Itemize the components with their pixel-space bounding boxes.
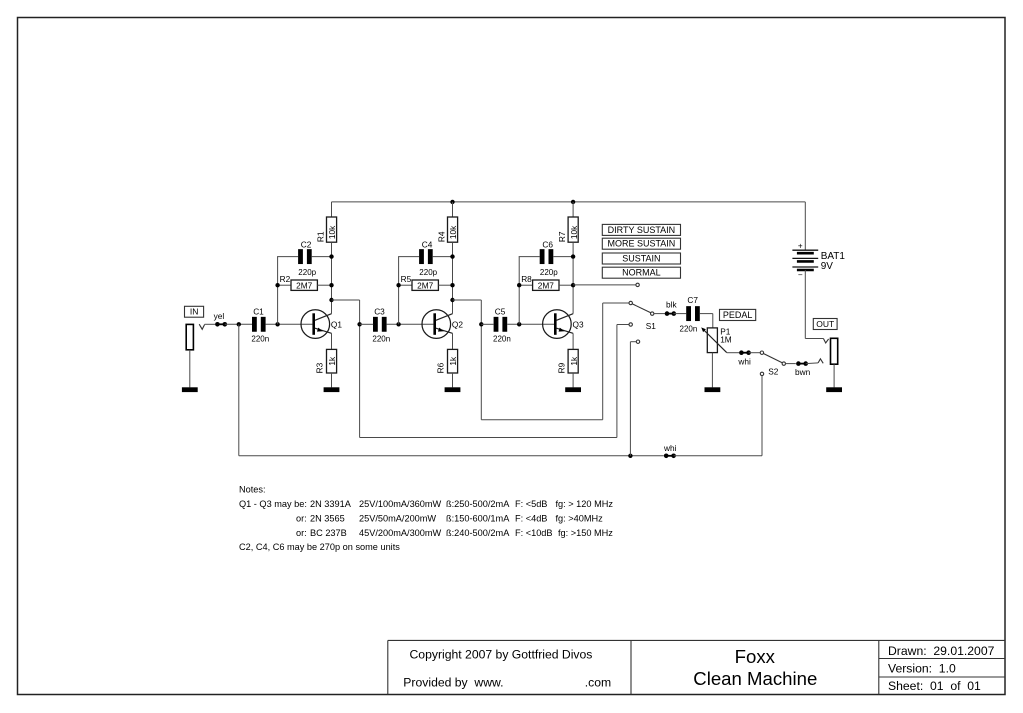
wire feedback vertical bbox=[398, 257, 400, 325]
ground emitter bbox=[324, 387, 340, 392]
potentiometer P1 1M bbox=[707, 328, 717, 353]
connector yel bbox=[215, 322, 220, 327]
P1 wiper arrow bbox=[703, 330, 726, 353]
node feedback-left bbox=[275, 283, 279, 287]
svg-text:C7: C7 bbox=[687, 295, 698, 305]
svg-text:Provided by www.: Provided by www. bbox=[403, 675, 503, 689]
svg-text:S2: S2 bbox=[768, 367, 779, 377]
svg-text:Clean Machine: Clean Machine bbox=[693, 668, 817, 689]
svg-text:Foxx: Foxx bbox=[735, 646, 776, 667]
svg-text:fg: >150 MHz: fg: >150 MHz bbox=[558, 528, 613, 538]
node 2M7-collector bbox=[571, 283, 575, 287]
svg-text:2M7: 2M7 bbox=[296, 280, 313, 290]
capacitor C3 220n bbox=[373, 317, 378, 332]
node base junction bbox=[517, 322, 521, 326]
svg-text:OUT: OUT bbox=[816, 319, 834, 329]
resistor R8 2M7 bbox=[519, 284, 532, 286]
node 220p-collector bbox=[329, 254, 333, 258]
connector blk bbox=[665, 311, 670, 316]
node Q1 collector takeoff bbox=[329, 298, 333, 302]
svg-text:yel: yel bbox=[214, 311, 225, 321]
wire S2 to out bbox=[785, 363, 795, 365]
svg-text:1M: 1M bbox=[720, 334, 732, 344]
wire Q3 output to S1 bbox=[573, 284, 636, 286]
svg-text:bwn: bwn bbox=[795, 367, 811, 377]
svg-text:1k: 1k bbox=[569, 356, 579, 366]
svg-text:DIRTY SUSTAIN: DIRTY SUSTAIN bbox=[608, 225, 676, 235]
svg-text:1k: 1k bbox=[327, 356, 337, 366]
svg-text:ß:150-600/1mA: ß:150-600/1mA bbox=[446, 513, 510, 523]
svg-text:or:: or: bbox=[296, 528, 307, 538]
jack J1 input bbox=[186, 324, 193, 349]
label OUT box bbox=[813, 319, 837, 330]
svg-text:45V/200mA/300mW: 45V/200mA/300mW bbox=[359, 528, 442, 538]
svg-text:220p: 220p bbox=[419, 268, 437, 277]
label PEDAL box bbox=[720, 309, 756, 320]
svg-text:9V: 9V bbox=[821, 261, 834, 272]
svg-text:whi: whi bbox=[737, 357, 751, 367]
svg-text:10k: 10k bbox=[448, 225, 458, 239]
label NORMAL bbox=[602, 267, 680, 278]
svg-text:R4: R4 bbox=[437, 231, 447, 242]
svg-text:10k: 10k bbox=[569, 225, 579, 239]
wire emitter bbox=[331, 333, 333, 349]
wire C5 feed bbox=[481, 323, 494, 325]
svg-text:BC 237B: BC 237B bbox=[310, 528, 347, 538]
svg-text:R3: R3 bbox=[315, 362, 325, 373]
ground emitter bbox=[565, 387, 581, 392]
svg-text:C5: C5 bbox=[495, 307, 506, 317]
svg-text:2M7: 2M7 bbox=[538, 280, 555, 290]
node 2M7-collector bbox=[329, 283, 333, 287]
switch S2 arm bbox=[763, 354, 782, 363]
svg-text:25V/100mA/360mW: 25V/100mA/360mW bbox=[359, 499, 442, 509]
resistor R7 10k bbox=[572, 202, 574, 217]
resistor R3 1k bbox=[327, 349, 337, 373]
svg-text:F: <5dB: F: <5dB bbox=[515, 499, 547, 509]
connector whi bottom bbox=[664, 454, 669, 459]
transistor Q1 bbox=[301, 310, 330, 339]
svg-text:Version: 1.0: Version: 1.0 bbox=[888, 661, 956, 675]
connector whi bbox=[739, 350, 744, 355]
svg-text:Sheet: 01 of 01: Sheet: 01 of 01 bbox=[888, 679, 981, 693]
wire collector vertical bbox=[452, 242, 454, 300]
capacitor C4 220p bbox=[419, 249, 424, 264]
resistor R6 1k bbox=[448, 349, 458, 373]
svg-text:C3: C3 bbox=[374, 307, 385, 317]
node C3 input bbox=[357, 322, 361, 326]
ground input jack bbox=[189, 350, 191, 388]
svg-text:220n: 220n bbox=[680, 325, 698, 334]
wire feedback vertical bbox=[277, 257, 279, 325]
wire normal tap up bbox=[629, 342, 631, 456]
node 220p-collector bbox=[571, 254, 575, 258]
battery BAT1 9V bbox=[804, 202, 806, 250]
resistor R1 10k bbox=[331, 202, 333, 217]
wire sustain run Q1 bbox=[360, 437, 617, 439]
node Q2 collector takeoff bbox=[450, 298, 454, 302]
svg-text:C1: C1 bbox=[253, 307, 264, 317]
wire P1 to ground bbox=[711, 353, 713, 388]
switch S2 throw2 bbox=[760, 372, 763, 375]
wire C7 to P1 bbox=[700, 313, 713, 315]
connector bwn bbox=[796, 361, 801, 366]
svg-text:R2: R2 bbox=[280, 274, 291, 284]
label SUSTAIN bbox=[602, 253, 680, 264]
svg-text:or:: or: bbox=[296, 513, 307, 523]
label DIRTY SUSTAIN bbox=[602, 224, 680, 235]
wire collector vertical bbox=[572, 242, 574, 300]
switch S1 throw1 bbox=[636, 283, 639, 286]
svg-text:whi: whi bbox=[663, 443, 677, 453]
resistor R5 2M7 bbox=[399, 284, 412, 286]
svg-text:2M7: 2M7 bbox=[417, 280, 434, 290]
wire battery negative bbox=[804, 270, 806, 339]
svg-text:S1: S1 bbox=[646, 321, 657, 331]
svg-text:R8: R8 bbox=[521, 274, 532, 284]
svg-text:2N 3565: 2N 3565 bbox=[310, 513, 345, 523]
jack tip contact V bbox=[199, 324, 204, 329]
capacitor C6 220p bbox=[540, 249, 545, 264]
svg-text:F: <10dB: F: <10dB bbox=[515, 528, 553, 538]
switch S1 throw4 bbox=[636, 340, 639, 343]
switch S2 throw1 bbox=[782, 362, 785, 365]
svg-text:R9: R9 bbox=[556, 362, 566, 373]
svg-text:MORE SUSTAIN: MORE SUSTAIN bbox=[607, 239, 675, 249]
svg-text:220p: 220p bbox=[540, 268, 558, 277]
resistor R2 2M7 bbox=[278, 284, 291, 286]
svg-text:−: − bbox=[798, 270, 803, 279]
wire cap to base bbox=[507, 323, 554, 325]
wire emitter bbox=[452, 333, 454, 349]
jack tip contact out bbox=[818, 359, 823, 364]
svg-text:220p: 220p bbox=[298, 268, 316, 277]
switch S1 arm bbox=[632, 304, 650, 313]
node 2M7-collector bbox=[450, 283, 454, 287]
svg-text:Drawn: 29.01.2007: Drawn: 29.01.2007 bbox=[888, 644, 995, 658]
svg-text:.com: .com bbox=[585, 675, 611, 689]
wire C3 feed bbox=[360, 323, 374, 325]
wire wiper to S2 bbox=[727, 352, 740, 354]
label MORE SUSTAIN bbox=[602, 238, 680, 249]
svg-text:NORMAL: NORMAL bbox=[622, 268, 661, 278]
svg-text:2N 3391A: 2N 3391A bbox=[310, 499, 352, 509]
wire 220p to collector bbox=[312, 256, 332, 258]
jack J2 output bbox=[831, 338, 838, 364]
svg-text:ß:250-500/2mA: ß:250-500/2mA bbox=[446, 499, 510, 509]
svg-text:PEDAL: PEDAL bbox=[723, 310, 753, 320]
wire feedback vertical bbox=[518, 257, 520, 325]
wire 220p to collector bbox=[553, 256, 573, 258]
svg-text:Q3: Q3 bbox=[573, 319, 584, 329]
svg-text:Q1 - Q3 may be:: Q1 - Q3 may be: bbox=[239, 499, 307, 509]
label IN box bbox=[185, 306, 204, 317]
svg-text:Q1: Q1 bbox=[331, 319, 342, 329]
capacitor C7 220n bbox=[686, 306, 691, 321]
wire sustain run Q2 bbox=[481, 419, 602, 421]
svg-text:blk: blk bbox=[666, 300, 677, 310]
svg-text:fg: > 120 MHz: fg: > 120 MHz bbox=[556, 499, 614, 509]
wire Q1 takeoff bbox=[332, 299, 360, 301]
wire cap to base bbox=[266, 323, 313, 325]
svg-text:SUSTAIN: SUSTAIN bbox=[622, 254, 660, 264]
transistor Q3 bbox=[543, 310, 572, 339]
svg-text:1k: 1k bbox=[448, 356, 458, 366]
wire emitter bbox=[572, 333, 574, 349]
capacitor C1 220n bbox=[252, 317, 257, 332]
wire +9V rail bbox=[332, 201, 806, 203]
wire out jack ground bbox=[833, 364, 835, 387]
svg-text:Copyright 2007 by Gottfried Di: Copyright 2007 by Gottfried Divos bbox=[410, 647, 593, 661]
wire 220p to collector bbox=[433, 256, 453, 258]
wire to C1 bbox=[225, 323, 252, 325]
svg-text:C2, C4, C6 may be 270p on some: C2, C4, C6 may be 270p on some units bbox=[239, 542, 400, 552]
node normal tap bbox=[628, 454, 632, 458]
switch S2 pole bbox=[760, 351, 763, 354]
wire input bbox=[205, 323, 216, 325]
node rail-R4 bbox=[450, 200, 454, 204]
resistor R4 10k bbox=[452, 202, 454, 217]
svg-text:R5: R5 bbox=[401, 274, 412, 284]
node input junction bbox=[237, 322, 241, 326]
svg-text:R6: R6 bbox=[436, 362, 446, 373]
svg-text:fg: >40MHz: fg: >40MHz bbox=[556, 513, 604, 523]
wire S2 throw2 down bbox=[761, 376, 763, 456]
wire whi bottom run bbox=[239, 455, 664, 457]
wire S1 to C7 bbox=[654, 313, 665, 315]
capacitor C2 220p bbox=[298, 249, 303, 264]
switch S1 pole bbox=[651, 312, 654, 315]
svg-text:C6: C6 bbox=[542, 240, 553, 250]
node base junction bbox=[275, 322, 279, 326]
transistor Q2 bbox=[422, 310, 451, 339]
svg-text:220n: 220n bbox=[251, 334, 269, 343]
wire collector vertical bbox=[331, 242, 333, 300]
svg-text:C4: C4 bbox=[422, 240, 433, 250]
title block bbox=[388, 639, 1005, 641]
svg-text:Notes:: Notes: bbox=[239, 485, 266, 495]
node 220p-collector bbox=[450, 254, 454, 258]
wire Q2 takeoff bbox=[453, 299, 482, 301]
svg-text:R1: R1 bbox=[316, 231, 326, 242]
svg-text:25V/50mA/200mW: 25V/50mA/200mW bbox=[359, 513, 436, 523]
svg-text:220n: 220n bbox=[493, 334, 511, 343]
wire whi to S2 bbox=[674, 455, 762, 457]
node C5 input bbox=[479, 322, 483, 326]
svg-text:Q2: Q2 bbox=[452, 319, 463, 329]
svg-text:F: <4dB: F: <4dB bbox=[515, 513, 547, 523]
svg-text:ß:240-500/2mA: ß:240-500/2mA bbox=[446, 528, 510, 538]
resistor R9 1k bbox=[568, 349, 578, 373]
svg-text:C2: C2 bbox=[301, 240, 312, 250]
node rail-R7 bbox=[571, 200, 575, 204]
svg-text:R7: R7 bbox=[557, 231, 567, 242]
ground emitter bbox=[445, 387, 461, 392]
node base junction bbox=[396, 322, 400, 326]
svg-text:10k: 10k bbox=[327, 225, 337, 239]
wire input down bbox=[238, 324, 240, 456]
switch S1 throw2 bbox=[629, 301, 632, 304]
ground P1 bbox=[705, 387, 721, 392]
node feedback-left bbox=[517, 283, 521, 287]
svg-text:220n: 220n bbox=[372, 334, 390, 343]
switch S1 throw3 bbox=[629, 323, 632, 326]
jack sleeve contact V bbox=[823, 339, 828, 344]
wire cap to base bbox=[387, 323, 434, 325]
svg-text:IN: IN bbox=[190, 307, 199, 317]
node feedback-left bbox=[396, 283, 400, 287]
ground output jack bbox=[826, 387, 842, 392]
capacitor C5 220n bbox=[494, 317, 499, 332]
svg-text:+: + bbox=[798, 241, 803, 250]
